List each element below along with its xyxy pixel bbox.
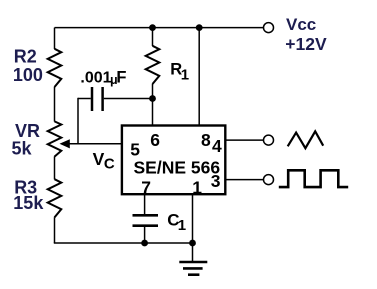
- wire: left rail R2 top lead: [54, 28, 56, 49]
- triangle wave symbol: [288, 131, 324, 148]
- wire: R2 to VR lead: [54, 87, 56, 122]
- capacitor C1 bottom plate: [133, 224, 159, 227]
- svg-text:1: 1: [192, 178, 202, 198]
- wire: pin 4 to triangle output terminal: [227, 139, 264, 141]
- svg-text:6: 6: [150, 130, 160, 150]
- wire: bottom rail: [54, 242, 193, 244]
- label Vc: [93, 149, 115, 172]
- capacitor C1 top plate: [133, 214, 159, 217]
- wire: cap left plate to corner: [78, 98, 91, 100]
- svg-text:+12V: +12V: [285, 34, 327, 54]
- wire: R3 bottom lead to bottom rail: [54, 217, 56, 243]
- svg-text:15k: 15k: [13, 193, 44, 213]
- node: junction R1 top at rail: [149, 24, 156, 31]
- svg-text:.001: .001: [80, 69, 111, 86]
- resistor R3 body: [48, 179, 62, 217]
- op-amp U1 SE/NE 566 box: [122, 126, 225, 195]
- square wave symbol: [279, 170, 348, 187]
- label R1: [170, 60, 189, 83]
- svg-text:8: 8: [201, 130, 211, 150]
- terminal: triangle output: [264, 135, 274, 145]
- wire: pin 8 branch from rail to IC: [198, 28, 200, 125]
- resistor R2 body: [48, 49, 62, 87]
- wire: pin 3 to square output terminal: [227, 179, 264, 181]
- capacitor .001uF left plate: [91, 87, 94, 111]
- svg-text:4: 4: [212, 136, 222, 156]
- wire: +Vcc top rail: [55, 27, 264, 29]
- label C1: [167, 210, 186, 234]
- svg-text:1: 1: [178, 217, 186, 234]
- svg-text:R2: R2: [14, 47, 37, 67]
- svg-text:5k: 5k: [12, 139, 33, 159]
- wire: pin 7 stub to C1: [144, 195, 146, 215]
- node: junction pin8 branch at rail: [196, 24, 203, 31]
- node: junction cap and R1 bottom: [149, 95, 156, 102]
- node: junction C1 at bottom rail: [141, 240, 148, 247]
- label .001uF: [80, 68, 126, 87]
- wire: C1 bottom plate to bottom rail: [144, 227, 146, 243]
- potentiometer VR body: [48, 121, 62, 156]
- svg-text:F: F: [116, 68, 126, 86]
- svg-text:1: 1: [181, 67, 189, 84]
- ground: [179, 262, 207, 275]
- terminal: Vcc: [264, 23, 274, 33]
- resistor R1 body: [146, 46, 160, 84]
- svg-text:C: C: [104, 155, 115, 172]
- terminal: square output: [264, 175, 274, 185]
- capacitor .001uF right plate: [101, 87, 104, 111]
- svg-text:7: 7: [141, 178, 151, 198]
- wire: node to pin 6 stub: [152, 99, 154, 126]
- wire: R1 bottom lead to node: [152, 84, 154, 99]
- wire: cap right plate to R1 node: [104, 98, 153, 100]
- wire: ground stub: [192, 243, 194, 262]
- svg-text:V: V: [93, 149, 105, 169]
- svg-text:Vcc: Vcc: [286, 15, 316, 34]
- svg-text:100: 100: [13, 65, 43, 85]
- svg-text:3: 3: [211, 171, 221, 191]
- wire: VR to R3 lead: [54, 156, 56, 179]
- wire: pin 1 stub to bottom rail: [192, 195, 194, 244]
- potentiometer VR wiper arrow: [60, 139, 70, 148]
- node: junction pin1 at bottom rail: [189, 240, 196, 247]
- svg-text:SE/NE 566: SE/NE 566: [134, 157, 221, 177]
- wire: wiper line to IC pin 5: [69, 143, 121, 145]
- wire: corner down to wiper line: [77, 98, 79, 144]
- wire: R1 top lead: [152, 28, 154, 46]
